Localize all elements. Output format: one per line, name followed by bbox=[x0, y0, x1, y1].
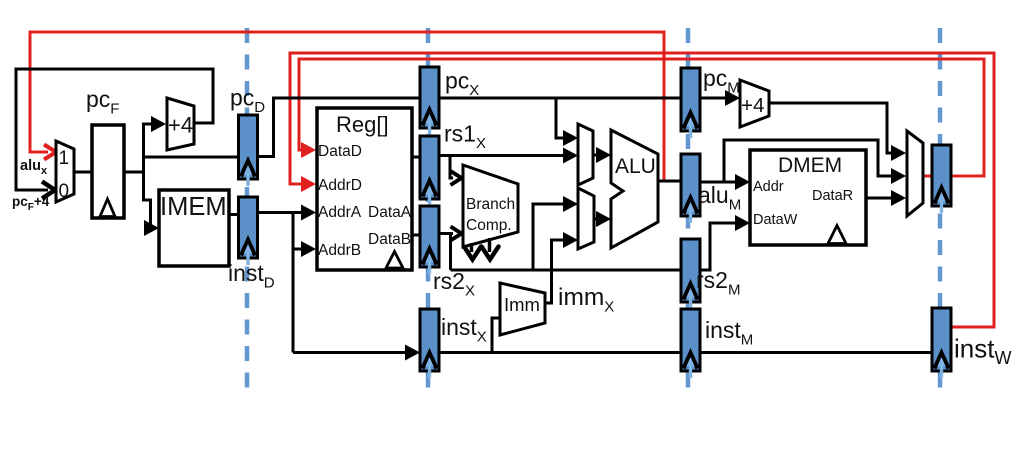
svg-text:DataA: DataA bbox=[368, 204, 412, 221]
box Reg[] register file bbox=[317, 108, 412, 270]
net label rs1_X bbox=[444, 121, 486, 153]
wire pc_F to pc_D register bbox=[144, 156, 241, 159]
svg-text:Addr: Addr bbox=[753, 179, 784, 195]
stage boundary dashed line F/D bbox=[245, 28, 250, 390]
wire pc_X branch down to ALU mux A bbox=[556, 98, 578, 146]
mux ALU input B bbox=[578, 188, 594, 249]
mux pc select input label 1 bbox=[59, 148, 70, 169]
net label pc_M bbox=[703, 65, 740, 97]
svg-text:Branch: Branch bbox=[466, 196, 515, 213]
wire pc_F+4 feedback loop to mux input 0 bbox=[16, 69, 213, 199]
pin label AddrB bbox=[318, 242, 361, 259]
immediate generator Imm bbox=[500, 283, 545, 335]
wire inst bus to inst_X register bbox=[293, 345, 420, 361]
wire rs2_X output to branch comparator bbox=[438, 227, 462, 241]
comparator Branch Comp bbox=[463, 165, 518, 247]
net label alu_x bbox=[20, 158, 48, 177]
net label inst_D bbox=[228, 260, 275, 292]
box DMEM data memory bbox=[750, 150, 866, 245]
net label alu_M bbox=[698, 182, 741, 214]
wire ALU mux B output bbox=[594, 211, 611, 227]
pin label Addr bbox=[753, 179, 784, 195]
pin label DataW bbox=[753, 212, 798, 228]
svg-text:+4: +4 bbox=[168, 113, 193, 138]
wire rs2 forward line to rs2_M register bbox=[451, 269, 683, 272]
branch comp output down arrow left bbox=[464, 243, 481, 260]
net label rs2_X bbox=[433, 268, 475, 300]
net label pc_X bbox=[445, 68, 479, 100]
wire rs2_M output to DMEM DataW bbox=[699, 215, 750, 270]
register inst_D bbox=[239, 197, 258, 265]
svg-text:AddrA: AddrA bbox=[318, 204, 362, 221]
wire Reg DataB to rs2_X register bbox=[412, 234, 421, 237]
wire pc_D output to pc_X register bbox=[257, 98, 421, 157]
svg-text:Comp.: Comp. bbox=[466, 217, 512, 234]
svg-text:0: 0 bbox=[59, 181, 70, 202]
register inst_M bbox=[681, 309, 700, 378]
svg-text:AddrD: AddrD bbox=[318, 177, 362, 194]
wire pc_X output to pc_M register bbox=[438, 97, 682, 100]
net label pc_D bbox=[230, 85, 265, 117]
wire imm generator input from inst bus bbox=[492, 318, 500, 352]
svg-text:DataB: DataB bbox=[368, 231, 411, 248]
mux pc select input label 0 bbox=[59, 181, 70, 202]
wire rs2 up to ALU mux B bbox=[533, 196, 578, 270]
net label inst_M bbox=[705, 317, 753, 349]
wire ALU mux A output bbox=[593, 147, 611, 163]
register pc_F bbox=[92, 125, 124, 218]
mux pc select bbox=[56, 141, 74, 202]
pin label DataD bbox=[318, 143, 362, 160]
wire inst_M output to inst_W register bbox=[699, 351, 933, 354]
svg-text:ALU: ALU bbox=[615, 155, 656, 178]
net label pc_F bbox=[86, 86, 119, 118]
wire pc_F to +4 adder bbox=[144, 116, 167, 132]
svg-text:AddrB: AddrB bbox=[318, 242, 361, 259]
register rs2_M bbox=[681, 239, 700, 309]
wire alu_M to writeback mux bbox=[724, 140, 906, 184]
wire alu_M output to DMEM Addr bbox=[699, 174, 750, 190]
wire rs1_X output to ALU mux A bbox=[438, 148, 578, 164]
wire Reg DataA to rs1_X register bbox=[412, 156, 421, 159]
register pc_X bbox=[420, 67, 439, 135]
wire red inst_W destination to Reg AddrD bbox=[290, 53, 994, 327]
wire ALU output to alu_M register bbox=[658, 180, 682, 183]
net label inst_W bbox=[954, 334, 1011, 369]
svg-text:IMEM: IMEM bbox=[160, 193, 227, 221]
pin label DataB bbox=[368, 231, 411, 248]
wire red ALU result feedback to pc mux input 1 bbox=[30, 32, 664, 181]
wire pc_F output junction bbox=[124, 123, 145, 202]
wire inst_X output to inst_M register bbox=[438, 351, 682, 354]
wire rs2_X down to forward line bbox=[449, 234, 452, 271]
register rs1_X bbox=[420, 136, 439, 206]
adder +4 fetch stage bbox=[167, 98, 194, 150]
net label imm_X bbox=[558, 284, 614, 316]
stage boundary dashed line X/M bbox=[686, 28, 691, 390]
box IMEM instruction memory bbox=[159, 190, 229, 266]
svg-text:DataW: DataW bbox=[753, 212, 798, 228]
wire imm_X output to ALU mux B bbox=[545, 232, 578, 303]
pin label DataA bbox=[368, 204, 412, 221]
wire DMEM DataR to writeback mux bbox=[866, 190, 906, 206]
svg-text:Reg[]: Reg[] bbox=[336, 112, 389, 137]
svg-text:1: 1 bbox=[59, 148, 70, 169]
pin label AddrD bbox=[318, 177, 362, 194]
register pc_M bbox=[681, 68, 700, 138]
register pc_D bbox=[239, 115, 258, 186]
stage boundary dashed line D/X bbox=[426, 28, 431, 390]
net label inst_X bbox=[441, 314, 487, 346]
mux writeback bbox=[907, 131, 923, 216]
svg-text:DMEM: DMEM bbox=[778, 154, 842, 177]
wire red writeback data to Reg DataD bbox=[299, 59, 984, 176]
wire +4 M output to writeback mux bbox=[769, 103, 906, 161]
register inst_W bbox=[932, 308, 951, 378]
wire mux output to pc_F bbox=[74, 171, 94, 174]
adder +4 memory stage bbox=[740, 80, 769, 127]
stage boundary dashed line M/W bbox=[938, 28, 943, 390]
wire to Reg AddrB bbox=[293, 241, 316, 257]
svg-text:DataR: DataR bbox=[812, 188, 853, 204]
register inst_X bbox=[420, 309, 439, 378]
mux ALU input A bbox=[578, 124, 593, 185]
wire pc_M output to +4 adder M bbox=[699, 90, 740, 106]
wire rs1 to branch comparator bbox=[450, 156, 462, 186]
register rs2_X bbox=[420, 206, 439, 274]
net label rs2_M bbox=[696, 267, 740, 299]
pin label AddrA bbox=[318, 204, 362, 221]
pin label DataR bbox=[812, 188, 853, 204]
wire IMEM output to inst_D register bbox=[229, 213, 240, 216]
svg-text:DataD: DataD bbox=[318, 143, 362, 160]
wire pc_F to IMEM staircase bbox=[144, 200, 160, 236]
svg-text:Imm: Imm bbox=[504, 294, 540, 315]
register wb_W bbox=[932, 145, 951, 213]
branch comp output down arrow right bbox=[482, 238, 499, 260]
wire inst_D vertical bus bbox=[292, 213, 295, 353]
net label pc_F+4 bbox=[12, 194, 50, 213]
ALU bbox=[611, 130, 658, 248]
register alu_M bbox=[681, 154, 700, 223]
svg-text:+4: +4 bbox=[741, 94, 764, 117]
wire inst_D output to Reg AddrA bbox=[257, 205, 316, 221]
